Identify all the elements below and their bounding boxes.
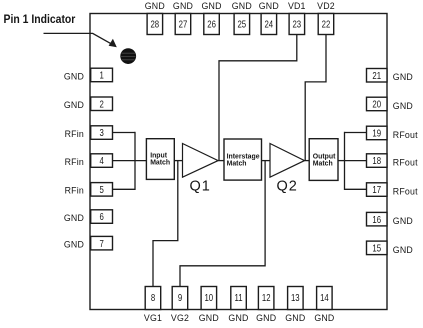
output match network block <box>309 139 338 181</box>
pin 18 (RFout) right <box>367 154 419 168</box>
svg-text:VG1: VG1 <box>144 313 162 323</box>
svg-text:VD2: VD2 <box>317 1 335 11</box>
wire VG2 Q2 gate node to pin 9 <box>180 161 265 287</box>
svg-text:Interstage: Interstage <box>227 153 260 160</box>
svg-text:GND: GND <box>232 1 252 11</box>
svg-text:10: 10 <box>204 292 213 303</box>
svg-text:RFout: RFout <box>393 158 418 168</box>
pin 26 (GND) top <box>202 1 222 34</box>
svg-text:GND: GND <box>393 72 413 82</box>
wire RFout bus to pin 17 <box>345 188 367 190</box>
svg-text:GND: GND <box>314 313 334 323</box>
wire Input Match to Q1 gate <box>174 160 182 162</box>
svg-text:4: 4 <box>99 155 103 166</box>
transistor Q2 (second stage FET, triangle symbol) <box>270 144 305 195</box>
pin 9 (VG2) bottom <box>171 287 189 324</box>
pin 23 (VD1) top <box>288 1 306 34</box>
pin 1 indicator arrow <box>44 33 117 47</box>
svg-text:RFin: RFin <box>65 186 84 196</box>
svg-text:6: 6 <box>99 211 103 222</box>
chip outline <box>90 14 387 310</box>
svg-text:5: 5 <box>99 184 103 195</box>
pin 13 (GND) bottom <box>285 287 305 324</box>
pin 28 (GND) top <box>145 1 165 34</box>
pin 22 (VD2) top <box>317 1 335 34</box>
svg-text:GND: GND <box>202 1 222 11</box>
svg-text:VG2: VG2 <box>171 313 189 323</box>
svg-text:Match: Match <box>313 161 333 168</box>
pin 20 (GND) right <box>367 97 413 111</box>
wire VD2 pin 22 to Q2 drain node <box>305 35 326 161</box>
svg-text:13: 13 <box>291 292 300 303</box>
svg-text:23: 23 <box>292 18 301 29</box>
svg-text:25: 25 <box>237 18 246 29</box>
svg-text:19: 19 <box>372 128 381 139</box>
svg-text:18: 18 <box>372 155 381 166</box>
svg-text:26: 26 <box>207 18 216 29</box>
svg-text:3: 3 <box>99 127 103 138</box>
svg-text:GND: GND <box>173 1 193 11</box>
pin 7 (GND) left <box>64 236 113 250</box>
wire VG1 Q1 gate node to pin 8 <box>153 161 178 287</box>
svg-text:RFout: RFout <box>393 187 418 197</box>
svg-text:GND: GND <box>199 313 219 323</box>
pin 12 (GND) bottom <box>256 287 276 324</box>
svg-text:GND: GND <box>64 100 84 110</box>
svg-text:15: 15 <box>372 242 381 253</box>
pin 27 (GND) top <box>173 1 193 34</box>
pin 10 (GND) bottom <box>199 287 219 324</box>
pin 25 (GND) top <box>232 1 252 34</box>
svg-text:GND: GND <box>393 245 413 255</box>
svg-text:Pin 1 Indicator: Pin 1 Indicator <box>4 13 76 26</box>
svg-text:RFout: RFout <box>393 130 418 140</box>
svg-text:12: 12 <box>262 292 271 303</box>
svg-text:16: 16 <box>372 214 381 225</box>
wire pin 3 RFin to input bus <box>113 132 136 134</box>
wire pin 4 RFin to Input Match <box>113 160 147 162</box>
wire Q2 drain to Output Match <box>305 160 310 162</box>
svg-text:GND: GND <box>64 240 84 250</box>
svg-text:GND: GND <box>64 71 84 81</box>
svg-text:14: 14 <box>320 292 329 303</box>
input match network block <box>146 139 174 180</box>
transistor Q1 (first stage FET, triangle symbol) <box>183 144 219 195</box>
svg-text:21: 21 <box>372 70 381 81</box>
wire RFout bus to pin 18 <box>345 160 367 162</box>
pin 2 (GND) left <box>64 97 113 111</box>
svg-text:Q1: Q1 <box>190 178 211 194</box>
pin 14 (GND) bottom <box>314 287 334 324</box>
svg-text:8: 8 <box>151 292 155 303</box>
wire RFout bus vertical <box>344 132 346 190</box>
svg-text:20: 20 <box>372 99 381 110</box>
svg-text:27: 27 <box>179 18 188 29</box>
wire Output Match to RFout bus <box>338 160 345 162</box>
svg-text:GND: GND <box>256 313 276 323</box>
interstage match network block <box>224 139 262 180</box>
pin 1 indicator dot <box>120 48 136 64</box>
svg-text:GND: GND <box>285 313 305 323</box>
svg-text:VD1: VD1 <box>288 1 306 11</box>
pin 15 (GND) right <box>367 241 413 255</box>
svg-text:Match: Match <box>227 160 247 167</box>
svg-text:7: 7 <box>99 238 103 249</box>
pin 1 (GND) left <box>64 68 113 82</box>
pin 17 (RFout) right <box>367 183 419 197</box>
pin 19 (RFout) right <box>367 126 419 140</box>
svg-text:17: 17 <box>372 184 381 195</box>
svg-text:28: 28 <box>150 18 159 29</box>
svg-text:22: 22 <box>322 18 331 29</box>
pin 3 (RFin) left <box>65 126 113 140</box>
wire RFout bus to pin 19 <box>345 132 367 134</box>
svg-text:2: 2 <box>99 98 103 109</box>
svg-text:RFin: RFin <box>65 129 84 139</box>
svg-text:GND: GND <box>145 1 165 11</box>
wire VD1 pin 23 to Q1 drain node <box>219 35 297 161</box>
svg-text:GND: GND <box>393 101 413 111</box>
pin 8 (VG1) bottom <box>144 287 162 324</box>
svg-text:GND: GND <box>393 216 413 226</box>
wire Q1 drain to Interstage Match <box>218 160 224 162</box>
pin 5 (RFin) left <box>65 183 113 197</box>
pin 4 (RFin) left <box>65 154 113 168</box>
svg-text:11: 11 <box>234 292 242 303</box>
svg-text:GND: GND <box>64 213 84 223</box>
svg-text:Output: Output <box>313 153 336 160</box>
wire RFin bus vertical <box>134 132 136 190</box>
pin 16 (GND) right <box>367 212 413 226</box>
pin 24 (GND) top <box>259 1 279 34</box>
svg-text:Q2: Q2 <box>277 178 298 194</box>
wire pin 5 RFin to input bus <box>113 188 136 190</box>
svg-text:RFin: RFin <box>65 157 84 167</box>
pin 6 (GND) left <box>64 210 113 224</box>
svg-text:9: 9 <box>178 292 182 303</box>
svg-text:Match: Match <box>150 160 170 167</box>
svg-text:24: 24 <box>264 18 273 29</box>
svg-text:GND: GND <box>259 1 279 11</box>
pin 21 (GND) right <box>367 69 413 83</box>
svg-text:Input: Input <box>150 152 168 159</box>
wire Interstage Match to Q2 gate <box>262 160 271 162</box>
svg-text:1: 1 <box>99 70 103 81</box>
pin 11 (GND) bottom <box>228 287 248 324</box>
svg-text:GND: GND <box>228 313 248 323</box>
